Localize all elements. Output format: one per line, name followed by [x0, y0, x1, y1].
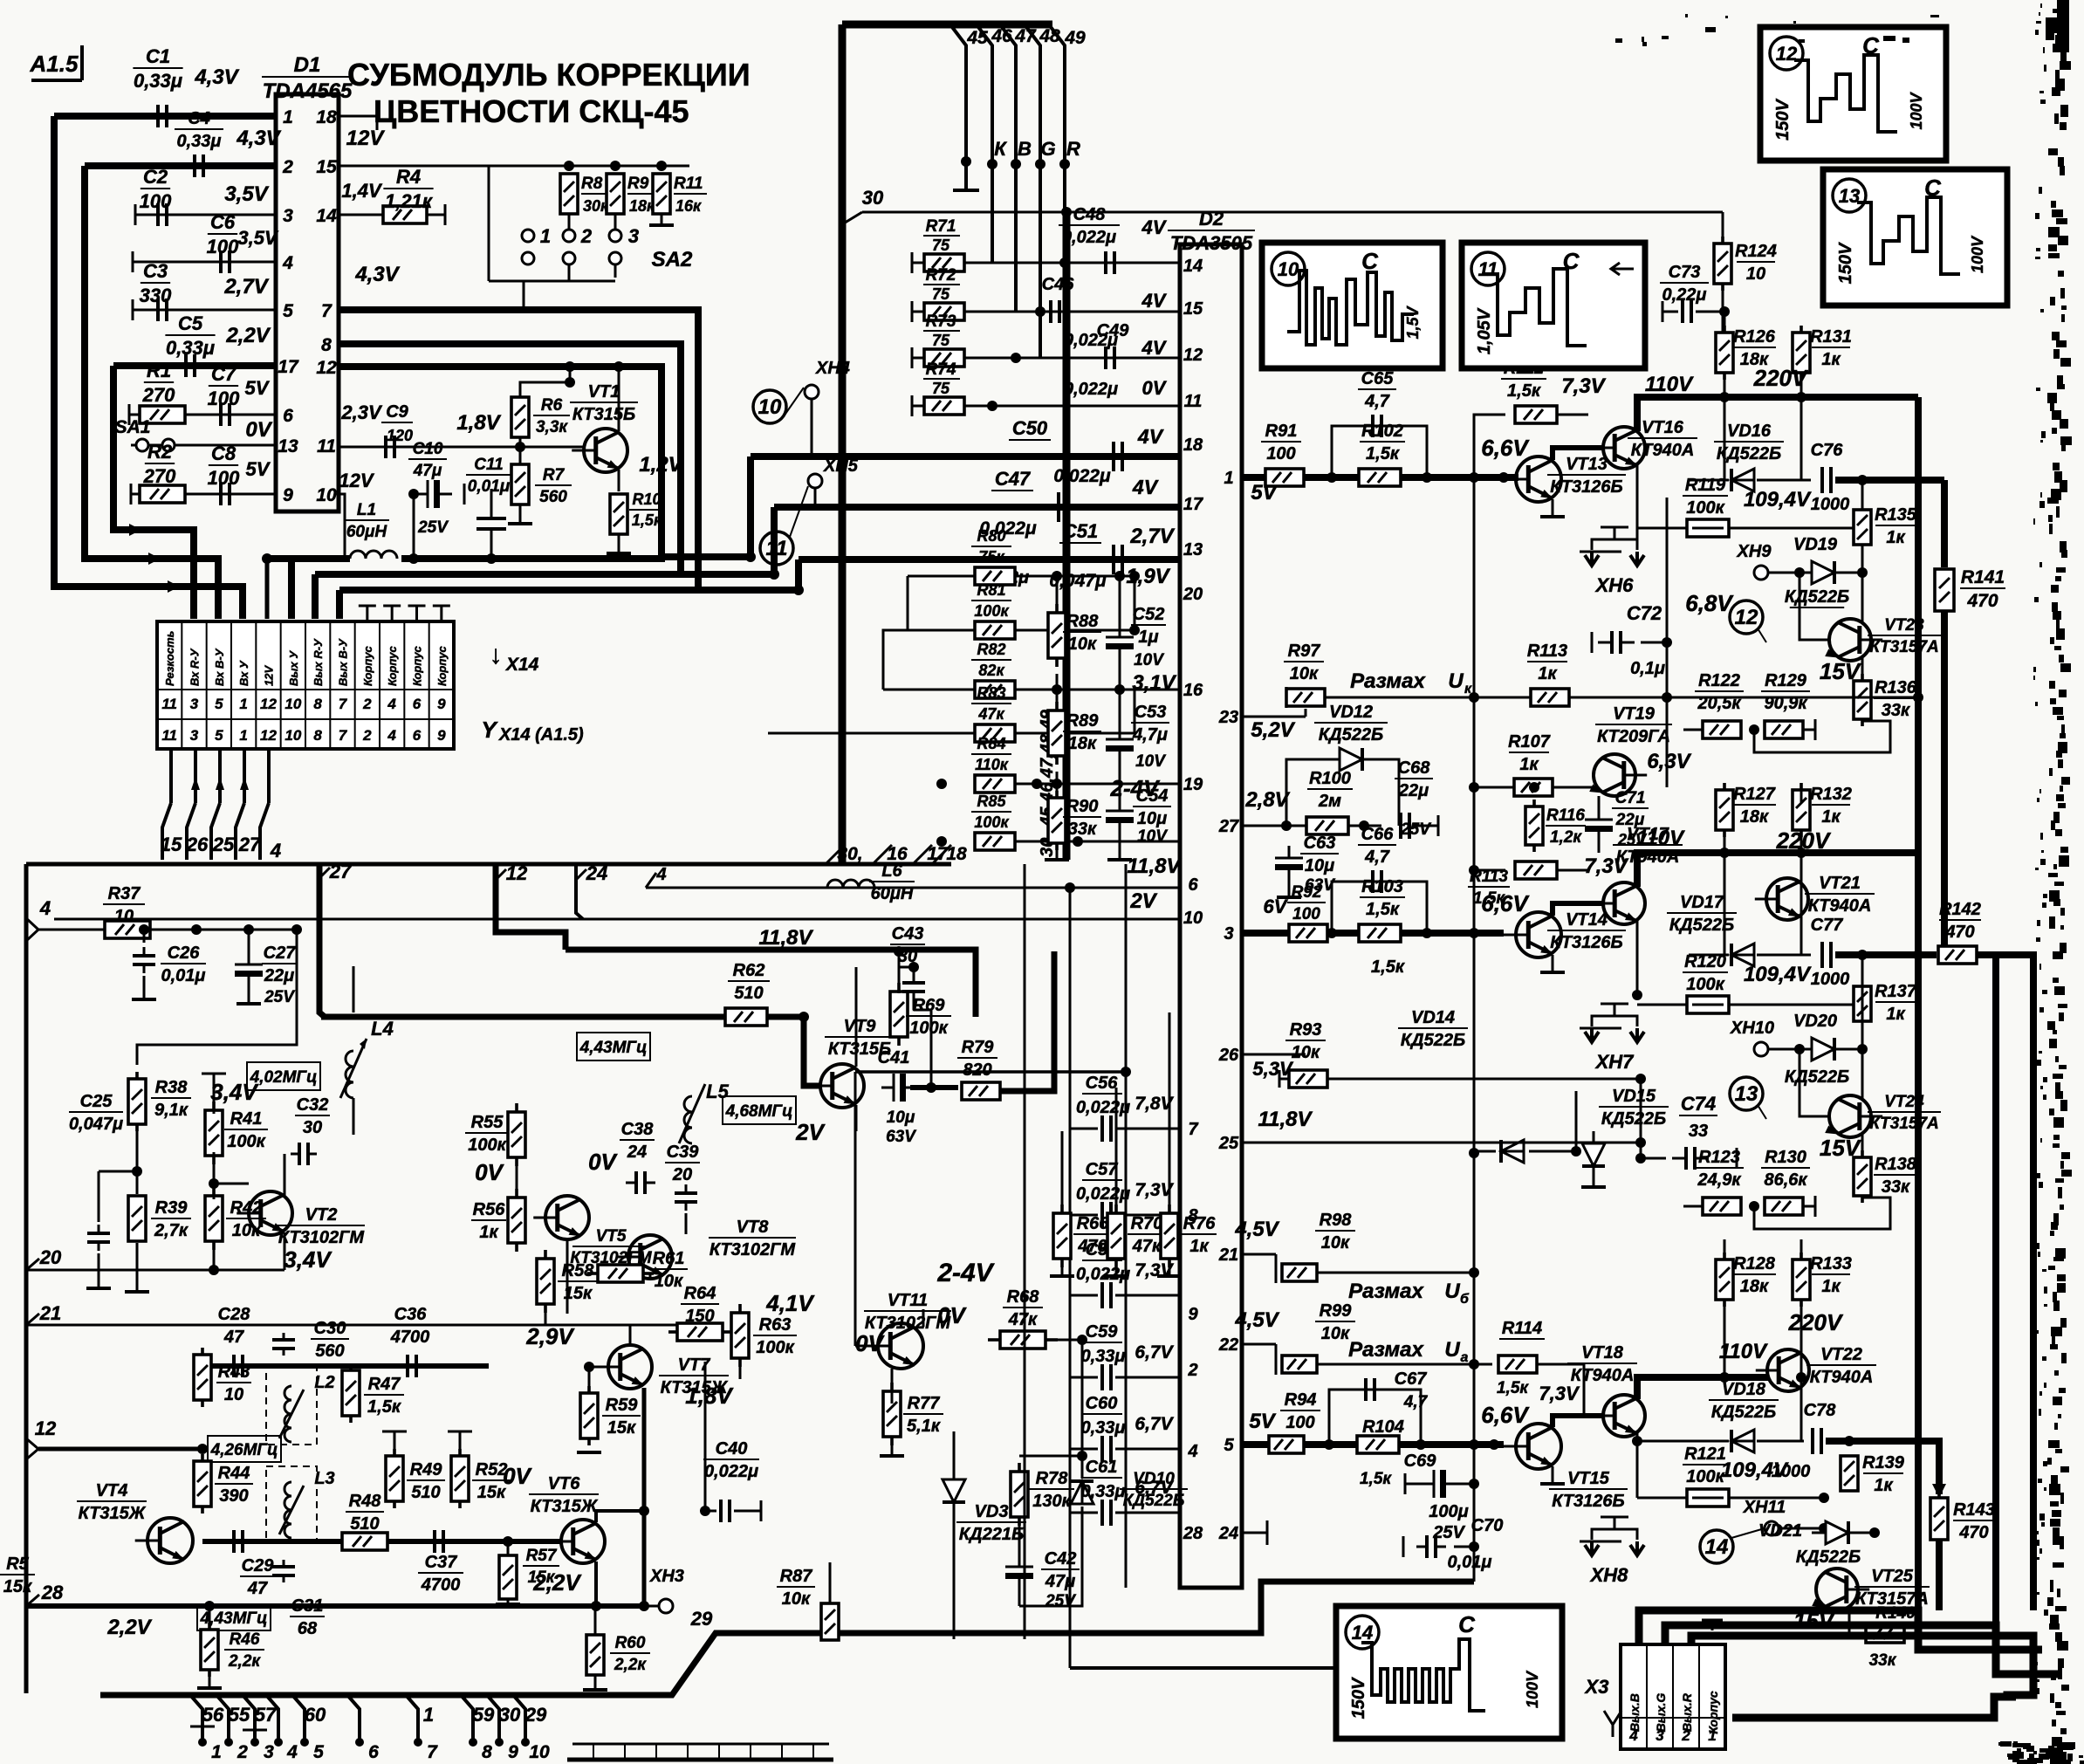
capacitor C59 [1070, 1322, 1180, 1390]
svg-text:R4: R4 [396, 166, 421, 188]
svg-text:0,01μ: 0,01μ [468, 477, 511, 496]
wire drop 12 [496, 862, 566, 950]
svg-text:R132: R132 [1810, 785, 1852, 804]
svg-text:C5: C5 [178, 312, 203, 334]
svg-text:VD21: VD21 [1758, 1521, 1802, 1541]
svg-text:18к: 18к [1740, 1277, 1769, 1296]
transistor VT2 [237, 1191, 365, 1247]
svg-text:120: 120 [387, 427, 413, 444]
capacitor C72 [1592, 602, 1665, 678]
bus to D2 pin17 [774, 504, 1180, 511]
svg-text:C48: C48 [1073, 205, 1107, 224]
resistor R72 [912, 266, 964, 322]
svg-text:5V: 5V [245, 377, 271, 399]
wire R68 [923, 1327, 1087, 1346]
wire VT24 emitter [1861, 1135, 1864, 1156]
svg-text:11: 11 [317, 436, 336, 456]
svg-text:10: 10 [758, 395, 782, 419]
capacitor C3 [140, 260, 172, 321]
wire jog18 to ladder [950, 738, 952, 845]
svg-text:C65: C65 [1361, 369, 1395, 388]
wire R78 VD10 rail [1019, 1340, 1087, 1519]
svg-text:10: 10 [114, 907, 134, 926]
svg-text:VD14: VD14 [1411, 1008, 1455, 1027]
labels below X14 [161, 834, 281, 861]
wire VT17 collector 110V [1636, 827, 1918, 887]
svg-text:470: 470 [1077, 1237, 1107, 1256]
svg-text:2: 2 [282, 157, 293, 177]
svg-text:L3: L3 [314, 1469, 334, 1488]
wire thick y1165 [321, 1012, 809, 1022]
capacitor C9 [340, 402, 413, 458]
svg-text:49: 49 [1064, 28, 1086, 48]
wire R143 down [1932, 1484, 1946, 1610]
svg-text:6,6V: 6,6V [1481, 890, 1530, 916]
svg-text:11: 11 [161, 696, 177, 712]
node pin1 voltage [194, 65, 239, 89]
node 4.5V s3 [1234, 1308, 1279, 1332]
wire R73 row [964, 353, 1180, 363]
node 2-4V [1110, 775, 1162, 801]
svg-text:ХН7: ХН7 [1594, 1051, 1635, 1073]
resistor R130 [1761, 1148, 1810, 1215]
diode VD20 [1785, 1012, 1849, 1087]
contact XN9 [1737, 542, 1805, 580]
svg-text:10V: 10V [1135, 752, 1166, 771]
svg-text:57: 57 [255, 1704, 278, 1726]
svg-text:X14: X14 [505, 655, 539, 675]
wire SA2 contacts [489, 166, 615, 281]
resistor R93 [1252, 1020, 1327, 1088]
svg-text:R85: R85 [977, 793, 1006, 810]
svg-text:R79: R79 [962, 1038, 995, 1057]
svg-text:C38: C38 [621, 1120, 655, 1139]
IC D1 pin numbers [278, 107, 337, 505]
resistor R114 [1497, 1319, 1580, 1404]
svg-text:4700: 4700 [421, 1575, 461, 1595]
wire C41 to R79 [910, 1082, 958, 1093]
wire VD20 right [1837, 1044, 1868, 1054]
svg-text:12: 12 [506, 862, 528, 884]
svg-text:10к: 10к [1068, 635, 1097, 654]
svg-text:11,8V: 11,8V [1258, 1108, 1313, 1131]
wire VD19 right [1837, 567, 1868, 578]
capacitor C60 [1070, 1394, 1180, 1462]
svg-text:C36: C36 [394, 1305, 428, 1324]
svg-text:R137: R137 [1875, 982, 1917, 1001]
wire bus left vertical 3 [113, 366, 194, 619]
wire C69 [1405, 1473, 1479, 1494]
svg-text:4,3V: 4,3V [194, 65, 239, 89]
capacitor C78 [1772, 1401, 1836, 1481]
node pin9 voltage [246, 458, 271, 480]
svg-text:390: 390 [219, 1486, 248, 1506]
svg-text:100к: 100к [227, 1132, 265, 1151]
resistor R79 [957, 1038, 1000, 1100]
wire D1 pin6 net [129, 404, 276, 425]
svg-text:C52: C52 [1133, 605, 1165, 624]
svg-text:C78: C78 [1804, 1401, 1837, 1420]
wire R66 top [856, 1131, 1062, 1213]
bottom cut table edge [567, 1744, 833, 1760]
node 6.6V s3 [1481, 1402, 1530, 1428]
svg-text:К: К [994, 138, 1007, 160]
svg-text:R82: R82 [977, 641, 1005, 658]
resistor R121 lined [1683, 1445, 1729, 1507]
ground R39 C25 [86, 1243, 149, 1292]
node 109.4V s2 [1744, 963, 1812, 986]
node 30 wire [842, 187, 1723, 224]
svg-text:0V: 0V [1142, 377, 1168, 399]
svg-text:Корпус: Корпус [361, 645, 374, 686]
node pin6 voltage [245, 377, 271, 399]
svg-text:9: 9 [1188, 1305, 1198, 1324]
svg-text:VD19: VD19 [1793, 535, 1838, 554]
node 220V s1 [1753, 365, 1809, 391]
resistor R46 [201, 1623, 264, 1677]
node 1.2V [639, 453, 683, 477]
svg-text:13: 13 [1183, 540, 1203, 559]
svg-text:C46: C46 [1042, 275, 1075, 294]
transistor VT13 [1504, 455, 1626, 502]
svg-text:1к: 1к [1886, 528, 1905, 547]
resistor R1 [140, 360, 185, 423]
capacitor C28 [216, 1305, 251, 1377]
bus riser B [771, 507, 778, 574]
svg-text:0,33μ: 0,33μ [166, 337, 215, 359]
diode VD15 [1582, 1087, 1669, 1178]
svg-text:2,9V: 2,9V [525, 1323, 575, 1349]
svg-text:0,01μ: 0,01μ [161, 966, 206, 985]
contact XN10 [1730, 1019, 1805, 1056]
svg-text:10к: 10к [1321, 1324, 1350, 1343]
wire razmah V row [1242, 1054, 1306, 1056]
svg-text:1000: 1000 [1811, 495, 1850, 514]
wire nest1 [1639, 1610, 2042, 1650]
node 6.3V [1647, 750, 1691, 773]
node pin3 voltage [224, 182, 269, 206]
svg-text:VD20: VD20 [1793, 1012, 1837, 1031]
svg-text:30: 30 [303, 1118, 322, 1137]
svg-text:12: 12 [1183, 346, 1203, 365]
svg-text:10к: 10к [655, 1272, 683, 1291]
wire VT9 base path [804, 1017, 820, 1086]
resistor R7 [511, 464, 572, 506]
resistor R80 [971, 527, 1015, 585]
svg-text:R114: R114 [1502, 1319, 1542, 1338]
svg-text:1: 1 [423, 1704, 434, 1726]
svg-text:10μ: 10μ [1305, 856, 1334, 875]
capacitor C11 [466, 456, 511, 529]
inductor L2 tunable [266, 1366, 335, 1445]
wire VT22 net [1754, 1354, 1801, 1441]
svg-text:4V: 4V [1141, 216, 1168, 238]
svg-text:4,7μ: 4,7μ [1132, 725, 1168, 745]
resistor R133 [1793, 1253, 1852, 1307]
svg-text:100к: 100к [909, 1019, 948, 1038]
title text line 1 [347, 57, 751, 93]
svg-text:6,8V: 6,8V [1685, 590, 1734, 616]
connector X3 labels [1628, 1691, 1720, 1744]
resistor R83 [971, 684, 1015, 742]
capacitor C5 [165, 312, 215, 377]
wire C70 [1454, 1541, 1479, 1552]
svg-text:VT14: VT14 [1566, 910, 1608, 930]
wire C78 right [1826, 1436, 1937, 1446]
node 6.8V s1 [1685, 590, 1734, 616]
transistor VT6 [529, 1474, 605, 1563]
svg-text:12: 12 [260, 696, 277, 712]
bus D1 pin7 nest [339, 310, 698, 590]
svg-text:1к: 1к [1886, 1005, 1905, 1024]
resistor R59 [580, 1386, 641, 1445]
svg-text:2: 2 [237, 1742, 248, 1762]
svg-text:30,: 30, [837, 844, 862, 864]
svg-text:13: 13 [1735, 1082, 1758, 1106]
svg-text:КД522Б: КД522Б [1796, 1548, 1861, 1567]
svg-text:270: 270 [143, 465, 176, 487]
svg-text:к: к [1464, 682, 1472, 697]
svg-text:0,022μ: 0,022μ [1053, 466, 1111, 486]
svg-text:560: 560 [315, 1342, 344, 1361]
svg-text:15к: 15к [528, 1568, 556, 1587]
svg-text:560: 560 [539, 488, 567, 506]
svg-text:КД522Б: КД522Б [1717, 444, 1781, 463]
svg-text:33: 33 [1689, 1122, 1708, 1141]
svg-text:C49: C49 [1097, 321, 1130, 340]
capacitor C58 [1070, 1240, 1180, 1308]
transistor VT15 [1504, 1424, 1628, 1511]
resistor R92 [1264, 883, 1327, 942]
bus bottom ext C [698, 587, 799, 594]
svg-text:ХН3: ХН3 [649, 1567, 684, 1586]
svg-text:C: C [1361, 248, 1379, 274]
svg-text:9: 9 [437, 727, 446, 744]
svg-text:24: 24 [1218, 1524, 1238, 1543]
bottom connector stubs [190, 1695, 550, 1762]
svg-text:4: 4 [387, 727, 396, 744]
resistor R78 [1011, 1463, 1074, 1526]
node razmah Uk [1350, 669, 1472, 697]
svg-text:C43: C43 [892, 924, 924, 944]
rail x2287 [1992, 955, 1999, 1625]
wire D1 pin4 net [133, 251, 276, 272]
svg-text:3,5V: 3,5V [237, 227, 279, 249]
capacitor C77 [1811, 916, 1850, 989]
svg-text:1к: 1к [1519, 755, 1539, 774]
wire VT23 coll [1861, 573, 1864, 621]
wire C11 net [486, 489, 497, 564]
node pin6 voltage 0V [245, 418, 272, 442]
wire left vert x1174 [1024, 864, 1026, 1639]
wire to R38 [248, 928, 250, 930]
svg-text:82к: 82к [978, 662, 1004, 679]
resistor R126 [1716, 326, 1776, 380]
wire L4 net [323, 966, 353, 1154]
svg-text:25V: 25V [417, 518, 449, 537]
resistor R6 [511, 396, 570, 437]
wire XN6 up [1614, 498, 1615, 515]
svg-text:X14 (A1.5): X14 (A1.5) [498, 725, 584, 745]
svg-text:20: 20 [672, 1165, 692, 1184]
wire VT9 collector [856, 967, 899, 1067]
wire R122 left [1683, 697, 1684, 730]
svg-text:12V: 12V [346, 127, 386, 150]
svg-text:9: 9 [283, 485, 293, 505]
svg-text:C8: C8 [211, 443, 237, 464]
wire D1 pin2 net [85, 162, 276, 169]
resistor R140 [1857, 1604, 1916, 1670]
wire C63 [1277, 826, 1301, 897]
svg-text:10μ: 10μ [887, 1109, 915, 1127]
svg-text:12: 12 [316, 358, 337, 378]
svg-text:R74: R74 [926, 360, 956, 379]
svg-text:R87: R87 [780, 1567, 813, 1586]
svg-text:109,4V: 109,4V [1744, 488, 1812, 511]
diode VD14 [1398, 1008, 1524, 1163]
svg-text:↓: ↓ [490, 641, 503, 669]
node 0V VT11a [855, 1330, 885, 1356]
svg-text:15: 15 [1183, 299, 1203, 319]
title text line 2 [374, 93, 689, 129]
svg-text:R141: R141 [1961, 567, 2005, 587]
grounds R66 R70 R76 [1050, 1259, 1182, 1276]
svg-text:КТ3126Б: КТ3126Б [1550, 477, 1622, 497]
svg-text:VT23: VT23 [1884, 616, 1924, 635]
svg-text:110к: 110к [975, 756, 1009, 773]
node 2.8V [1244, 788, 1290, 812]
capacitor C32 [291, 1095, 330, 1165]
svg-text:10V: 10V [1137, 827, 1168, 846]
wire stage2 input [1242, 930, 1504, 937]
svg-text:R116: R116 [1546, 806, 1585, 825]
IC D1 TDA4565 body [276, 94, 339, 511]
svg-text:7: 7 [339, 727, 348, 744]
svg-text:C74: C74 [1681, 1093, 1716, 1115]
left block edge [24, 864, 29, 1693]
resistor R116 [1525, 800, 1586, 852]
svg-text:27: 27 [1218, 817, 1239, 836]
svg-text:12V: 12V [263, 665, 276, 686]
svg-text:0V: 0V [937, 1302, 967, 1328]
svg-text:R44: R44 [218, 1464, 250, 1483]
svg-text:C: C [1458, 1611, 1476, 1637]
svg-text:1: 1 [211, 1742, 222, 1762]
svg-text:11: 11 [1478, 258, 1498, 280]
svg-text:R72: R72 [926, 266, 956, 285]
node 1.8V VT7 [685, 1383, 734, 1409]
svg-text:0,022μ: 0,022μ [1076, 1098, 1130, 1117]
svg-text:VT24: VT24 [1884, 1093, 1924, 1111]
svg-text:R55: R55 [471, 1113, 504, 1132]
transistor VT1 [570, 382, 638, 472]
transistor VT4 [77, 1481, 193, 1563]
svg-text:22μ: 22μ [264, 966, 294, 985]
svg-text:18: 18 [946, 844, 967, 864]
wire pin6 drop [1069, 888, 1072, 1668]
wire R42 bottom [213, 1241, 216, 1270]
bus y990 [26, 862, 951, 867]
svg-text:130к: 130к [1032, 1492, 1071, 1511]
wire VT16 emitter [1484, 464, 1637, 541]
svg-text:Х3: Х3 [1584, 1676, 1609, 1698]
capacitor C41 polarized [878, 1048, 918, 1146]
svg-text:КД522Б: КД522Б [1785, 587, 1849, 607]
svg-text:10: 10 [224, 1385, 243, 1404]
wire R49 top [382, 1431, 472, 1456]
resistor R123 [1695, 1148, 1744, 1215]
capacitor C56 [1070, 1074, 1180, 1142]
svg-text:1,5к: 1,5к [1360, 1470, 1392, 1488]
svg-text:C3: C3 [143, 260, 168, 282]
svg-text:4: 4 [282, 253, 293, 273]
svg-text:C60: C60 [1086, 1394, 1118, 1413]
rail x2198 [1915, 397, 1922, 1610]
wire stage1 fb [1474, 541, 1637, 569]
node 2.9V [525, 1323, 575, 1349]
svg-text:R9: R9 [627, 175, 649, 193]
wire stage1 input [1242, 474, 1504, 481]
wire stage1 sense [1474, 692, 1923, 703]
wire osc3 bottom rail [202, 1539, 489, 1544]
svg-text:4,02МГц: 4,02МГц [250, 1068, 318, 1087]
IC D1 label [262, 53, 353, 103]
svg-text:C59: C59 [1086, 1322, 1119, 1342]
capacitor C52 polarized [1106, 605, 1166, 669]
svg-text:КТ3157А: КТ3157А [1869, 638, 1939, 656]
wire VD3 vertical [953, 1431, 956, 1639]
svg-text:15к: 15к [3, 1577, 32, 1596]
wire D2 pin24 stub [1242, 1520, 1267, 1545]
svg-text:R49: R49 [410, 1460, 443, 1479]
resistor R84 [971, 735, 1015, 793]
svg-text:1к: 1к [1821, 807, 1841, 827]
wire VD16 row [1645, 448, 1811, 480]
svg-text:R100: R100 [1309, 769, 1351, 788]
riser stage2 [1469, 865, 1505, 1158]
svg-text:C69: C69 [1404, 1452, 1437, 1471]
svg-text:Корпус: Корпус [411, 645, 424, 686]
wire VD18 row [1637, 1440, 1804, 1443]
wire tap 47 B [1002, 26, 1037, 312]
wire R120 [1632, 990, 1868, 1010]
svg-text:L2: L2 [314, 1373, 334, 1392]
svg-text:а: а [1461, 1350, 1469, 1365]
transistor VT22 [1756, 1345, 1876, 1391]
svg-text:R: R [1066, 138, 1080, 160]
svg-text:1,5к: 1,5к [367, 1397, 401, 1417]
svg-text:1: 1 [1708, 1727, 1716, 1744]
svg-text:75: 75 [932, 237, 950, 254]
resistor R142 [1938, 900, 1981, 964]
svg-text:КТ315Ж: КТ315Ж [531, 1497, 599, 1516]
svg-text:R6: R6 [541, 396, 563, 415]
svg-text:C26: C26 [168, 944, 201, 963]
connector X14 grid [157, 621, 454, 749]
svg-text:VT9: VT9 [844, 1017, 877, 1036]
bus nest into X14 col7 [312, 574, 319, 619]
resistor R113 [1468, 861, 1557, 908]
svg-text:60μН: 60μН [871, 884, 914, 903]
svg-text:2: 2 [580, 225, 593, 247]
svg-text:КТ315Б: КТ315Б [572, 405, 635, 424]
capacitor C29 [234, 1530, 275, 1598]
svg-text:47μ: 47μ [1045, 1572, 1075, 1591]
svg-text:ЦВЕТНОСТИ СКЦ-45: ЦВЕТНОСТИ СКЦ-45 [374, 93, 689, 129]
wire VT19 net [1534, 796, 1599, 853]
svg-text:R131: R131 [1810, 327, 1852, 347]
diode VD21 [1758, 1521, 1862, 1567]
